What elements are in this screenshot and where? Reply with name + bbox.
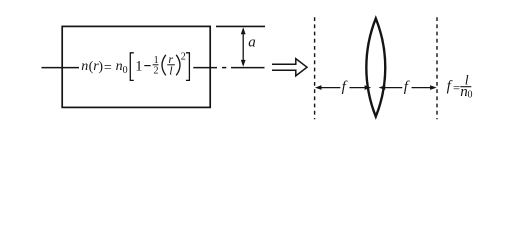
box: GRIN slab outline — [62, 26, 210, 107]
svg-text:2: 2 — [181, 52, 186, 63]
svg-text:1: 1 — [154, 55, 159, 66]
wire: top reference line for radius a — [216, 25, 265, 27]
wire: axis dot — [222, 67, 226, 69]
focal plane: left dashed vertical line — [314, 17, 316, 119]
svg-text:1: 1 — [135, 59, 142, 75]
svg-text:n: n — [81, 59, 88, 74]
wire: optical axis left segment — [42, 67, 80, 69]
dimension arrow f (left side) — [315, 85, 371, 90]
big left paren — [162, 55, 166, 76]
svg-text:=: = — [104, 60, 112, 75]
implication arrow (double-line hollow head) — [272, 59, 307, 76]
lens: thin biconvex lens outline — [366, 18, 385, 116]
focal plane: right dashed vertical line — [436, 17, 438, 119]
svg-text:0: 0 — [123, 65, 128, 76]
svg-text:2: 2 — [154, 65, 159, 76]
svg-text:): ) — [98, 60, 103, 75]
wire: axis dash after formula crossing box edge — [193, 67, 217, 69]
label: formula n(r) = n0[1 - 1/2 (r/l)^2] — [81, 52, 189, 81]
big right bracket — [186, 53, 190, 81]
big right paren — [176, 55, 180, 76]
label: formula f = l / n0 — [447, 74, 473, 101]
svg-text:n: n — [116, 59, 123, 74]
svg-text:0: 0 — [468, 90, 473, 101]
wire: axis long dash — [231, 67, 265, 69]
minus sign — [144, 65, 150, 67]
dimension arrow f (right side) — [379, 85, 437, 90]
dimension arrow a (vertical double-headed) — [241, 27, 246, 67]
svg-text:a: a — [248, 34, 256, 50]
svg-text:=: = — [453, 81, 460, 95]
big left bracket — [130, 53, 134, 81]
